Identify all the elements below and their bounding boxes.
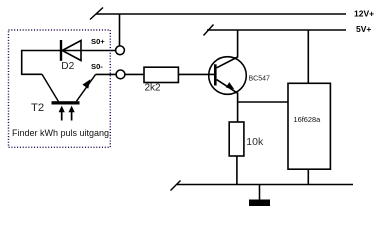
emitter arrowhead bbox=[82, 79, 90, 88]
wire 2k2 to base bbox=[178, 73, 214, 75]
wire IC to 5V rail bbox=[307, 30, 309, 83]
collector diagonal bbox=[217, 57, 238, 68]
svg-text:S0+: S0+ bbox=[91, 37, 105, 46]
wire emitter to PIC bbox=[238, 101, 288, 103]
transistor Q1 BC547 bbox=[209, 57, 247, 95]
svg-text:S0-: S0- bbox=[91, 62, 103, 71]
light arrow 2 bbox=[71, 110, 73, 121]
wire emitter down bbox=[237, 93, 239, 123]
break slash 5V bbox=[204, 25, 214, 36]
svg-text:D2: D2 bbox=[61, 61, 74, 72]
svg-text:T2: T2 bbox=[31, 102, 44, 114]
phototransistor T2 bbox=[42, 74, 96, 120]
break slash 12V bbox=[90, 8, 103, 20]
base bar bbox=[52, 101, 80, 104]
wire 10k to ground rail bbox=[236, 156, 238, 185]
collector diagonal bbox=[42, 74, 59, 101]
12V+ rail bbox=[96, 13, 346, 15]
emitter arrowhead bbox=[226, 82, 234, 89]
wire D2 cathode loop bbox=[22, 51, 60, 75]
wire D2 anode to S0+ bbox=[62, 50, 116, 52]
light arrow 1 bbox=[61, 110, 63, 121]
emitter diagonal bbox=[77, 75, 96, 102]
dotted enclosure bbox=[9, 30, 111, 147]
diode D2 bbox=[61, 40, 81, 61]
resistor 10k bbox=[229, 122, 244, 156]
IC 16f628a bbox=[288, 83, 330, 169]
terminal S0+ bbox=[116, 46, 125, 55]
wire S0- to R 2k2 bbox=[125, 73, 144, 75]
wire T2 emitter to S0- terminal bbox=[96, 73, 116, 75]
svg-text:5V+: 5V+ bbox=[356, 24, 371, 34]
wire collector to 5V rail bbox=[237, 30, 239, 58]
base bar bbox=[214, 64, 217, 85]
svg-text:2k2: 2k2 bbox=[145, 83, 162, 94]
ground symbol bbox=[249, 185, 270, 207]
5V+ rail bbox=[207, 29, 346, 31]
wire IC to ground rail bbox=[307, 169, 309, 184]
resistor 2k2 bbox=[144, 67, 178, 82]
svg-text:Finder kWh puls uitgang: Finder kWh puls uitgang bbox=[12, 128, 109, 138]
svg-text:12V+: 12V+ bbox=[354, 9, 374, 19]
ground rail bbox=[177, 184, 353, 186]
svg-text:16f628a: 16f628a bbox=[294, 115, 322, 124]
svg-text:10k: 10k bbox=[246, 136, 264, 148]
break slash ground bbox=[171, 181, 181, 191]
svg-text:BC547: BC547 bbox=[249, 75, 271, 82]
terminal S0- bbox=[116, 70, 125, 79]
emitter diagonal bbox=[217, 80, 238, 94]
wire 12V to S0+ terminal bbox=[119, 14, 121, 46]
